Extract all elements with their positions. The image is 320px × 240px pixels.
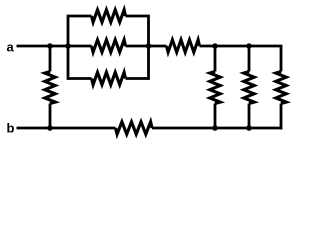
wire a lead xyxy=(17,45,69,48)
wire bottom branch left xyxy=(68,77,92,80)
resistor R3 xyxy=(92,40,126,52)
wire b right xyxy=(152,127,282,130)
wire box left edge xyxy=(67,15,70,80)
node junction a3 xyxy=(246,43,252,49)
wire R6 top lead xyxy=(214,46,217,72)
node junction a1 xyxy=(47,43,53,49)
resistor R4 xyxy=(92,72,126,84)
wire R1 bottom lead xyxy=(49,104,52,129)
resistor R2 xyxy=(92,10,126,22)
wire box right edge xyxy=(147,15,150,80)
node junction b3 xyxy=(246,125,252,131)
wire R8 top lead xyxy=(280,46,283,72)
wire R5 right lead xyxy=(200,45,283,48)
wire R1 top lead xyxy=(49,46,52,72)
resistor R8 xyxy=(276,72,286,104)
wire middle branch left xyxy=(68,45,92,48)
wire middle branch right xyxy=(126,45,149,48)
wire bottom branch right xyxy=(126,77,149,80)
wire b lead xyxy=(17,127,116,130)
svg-text:a: a xyxy=(7,40,15,55)
node junction box right xyxy=(146,43,152,49)
wire top branch right xyxy=(126,15,149,18)
resistor R9 xyxy=(116,122,153,134)
resistor R6 xyxy=(210,72,220,104)
node junction a2 xyxy=(212,43,218,49)
wire R5 left lead xyxy=(149,45,167,48)
svg-text:b: b xyxy=(7,121,15,136)
resistor R5 xyxy=(167,40,200,52)
node junction b2 xyxy=(212,125,218,131)
wire R8 bottom lead xyxy=(280,104,283,130)
resistor R1 xyxy=(45,72,55,104)
resistor R7 xyxy=(244,72,254,104)
node junction box left xyxy=(65,43,71,49)
wire R6 bottom lead xyxy=(214,104,217,129)
wire top branch left xyxy=(68,15,92,18)
wire R7 bottom lead xyxy=(248,104,251,129)
node junction b1 xyxy=(47,125,53,131)
wire R7 top lead xyxy=(248,46,251,72)
